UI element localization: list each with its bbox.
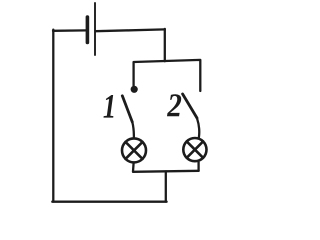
wire top-right (battery to middle drop) <box>96 29 165 31</box>
switch 1 blade <box>122 96 132 122</box>
wire left side <box>52 30 54 202</box>
node pivot of switch 1 <box>131 86 138 93</box>
lamp L2 <box>183 138 206 161</box>
switch 2 blade <box>183 94 197 118</box>
label 1 (switch 1) <box>103 95 113 118</box>
wire lamp L1 to bottom bus <box>132 163 135 172</box>
battery B1 thin plate (positive terminal) <box>94 3 96 55</box>
wire branch header (left drop, header, right drop) <box>134 60 201 91</box>
wire top-left (battery to left corner) <box>53 29 86 32</box>
battery B1 thick plate (negative terminal) <box>86 17 90 43</box>
wire lamp L2 to bottom bus <box>197 162 199 171</box>
label 2 (switch 2) <box>167 94 181 116</box>
wire middle drop <box>164 29 166 61</box>
wire switch 2 to lamp L2 <box>197 118 199 137</box>
wire bus to bottom wire <box>165 171 167 201</box>
lamp L1 <box>122 138 146 162</box>
wire bottom bus (joins lamps) <box>133 171 199 172</box>
wire switch 1 to lamp L1 <box>132 122 134 138</box>
wire bottom <box>52 201 166 203</box>
